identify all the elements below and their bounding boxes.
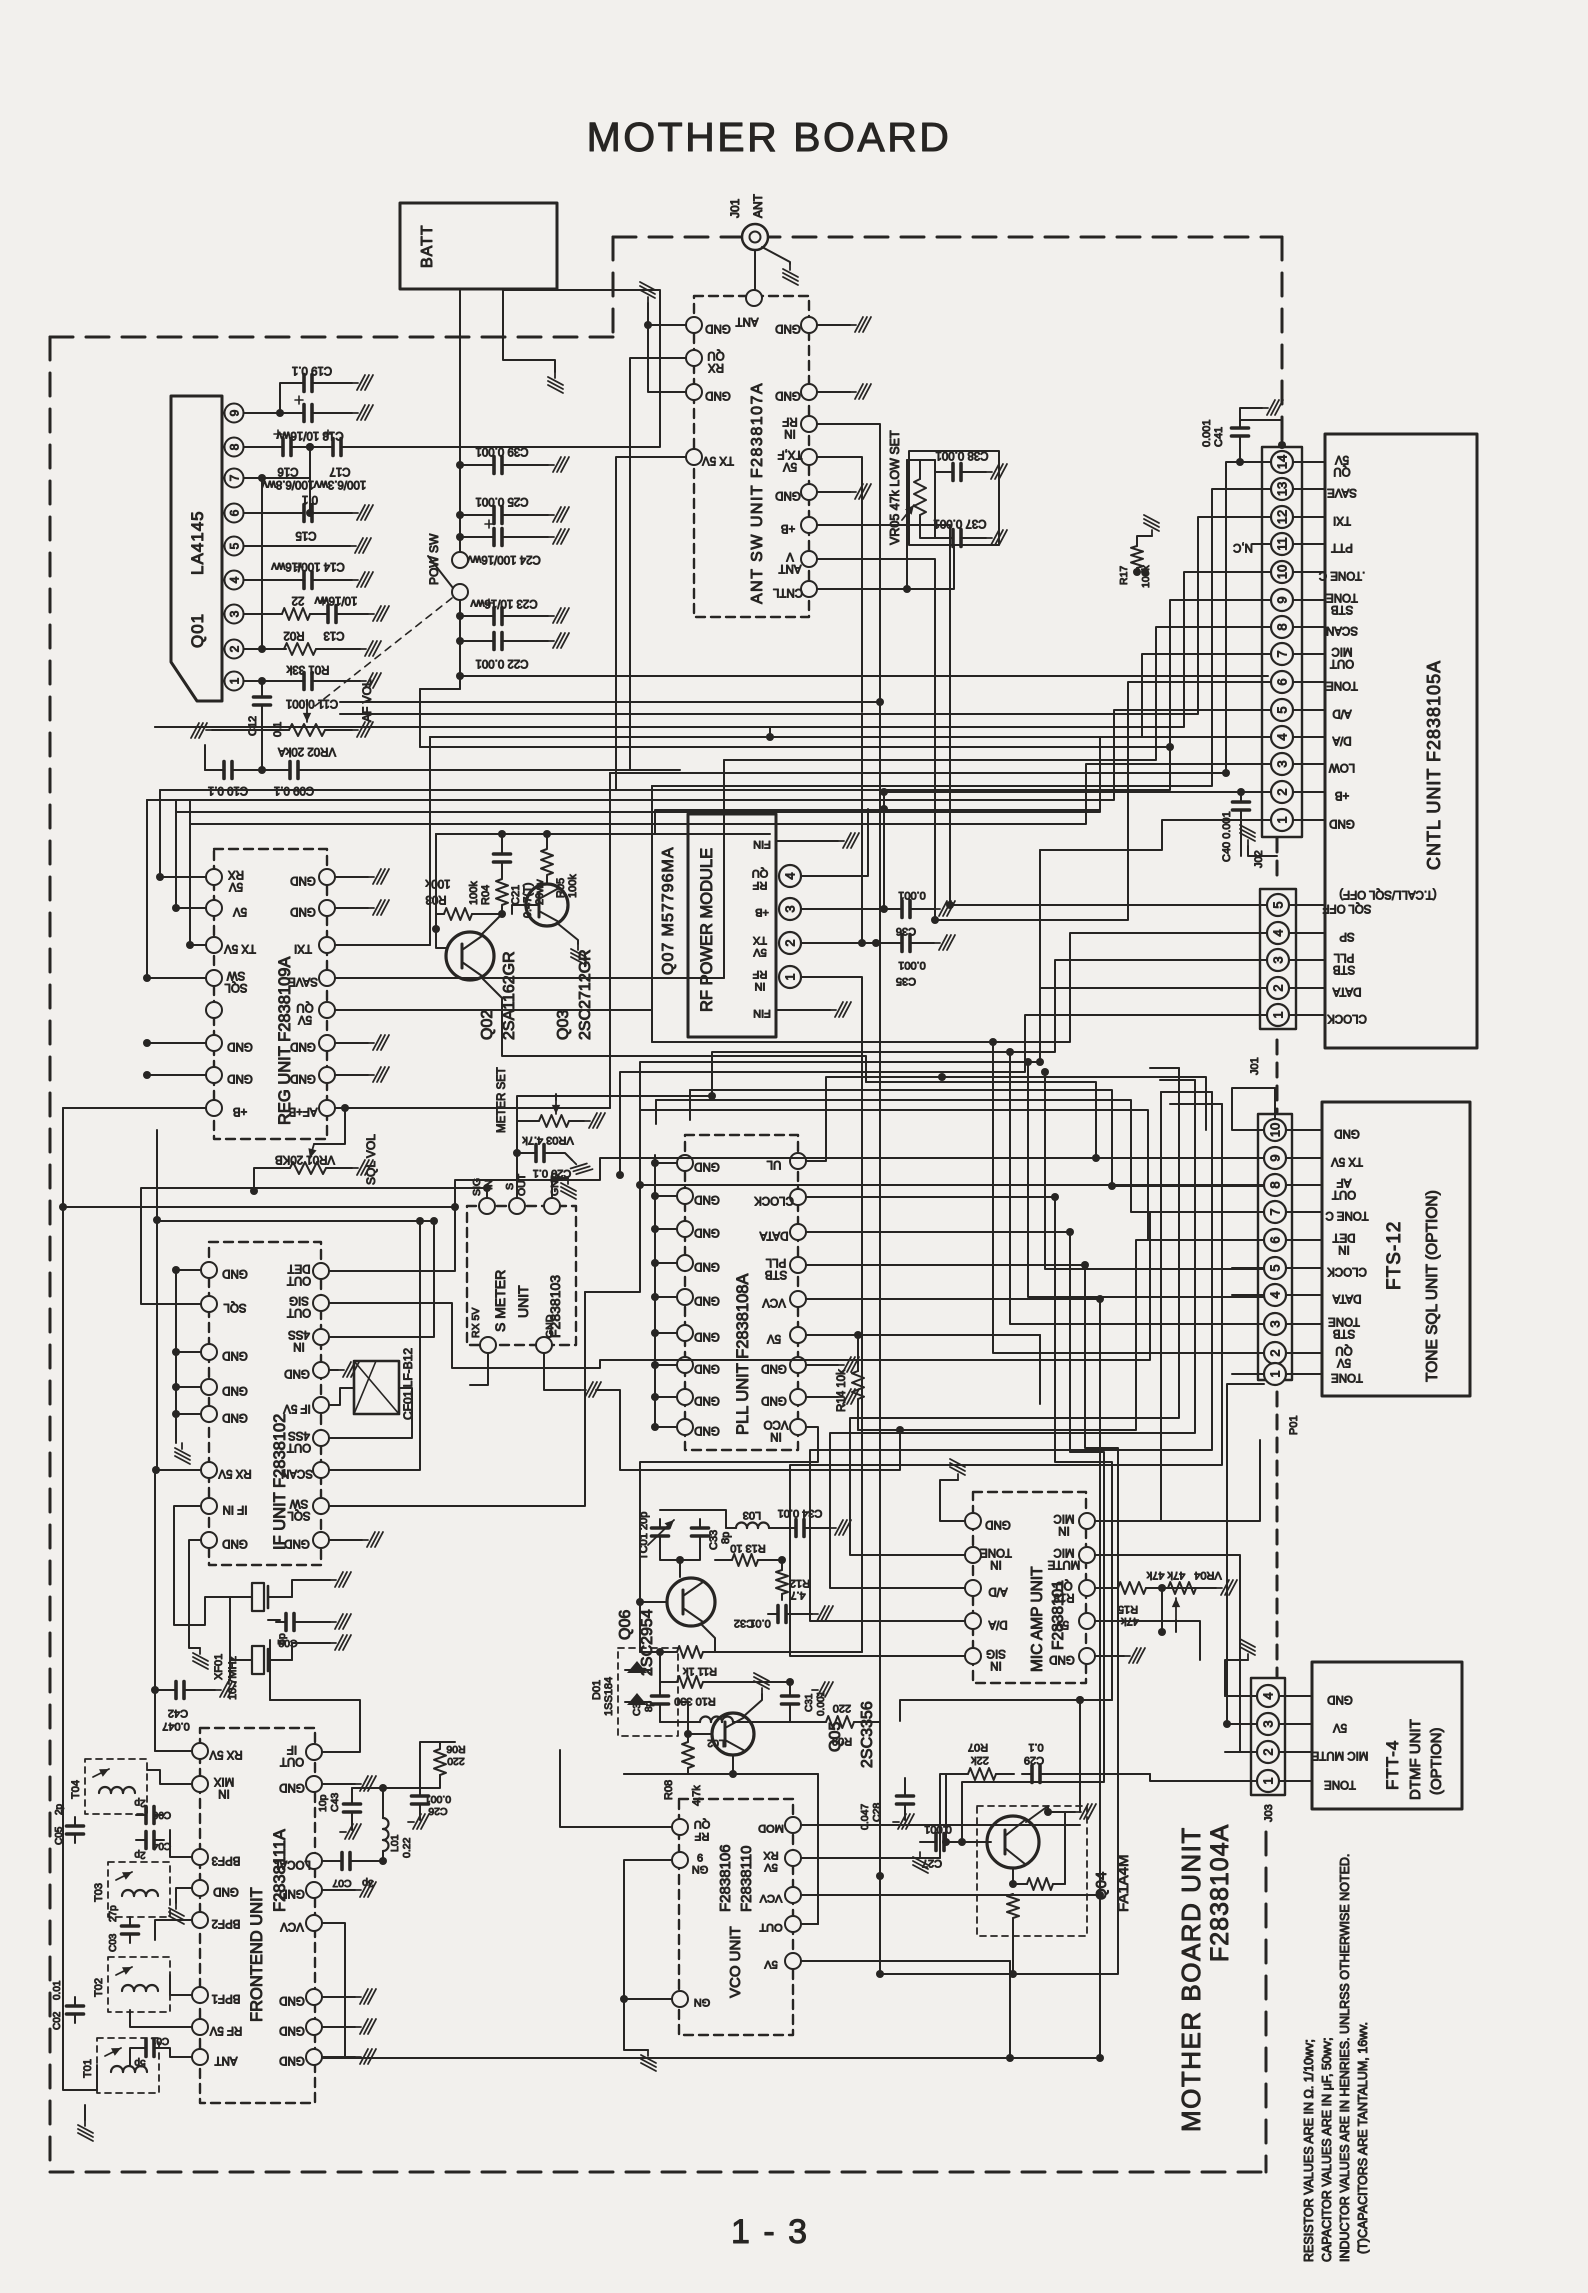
wire PLL STB <box>806 1264 1085 1266</box>
svg-text:GND: GND <box>985 1518 1011 1530</box>
svg-text:C43: C43 <box>329 1793 341 1812</box>
capacitor C13 10/16wv <box>310 613 320 615</box>
svg-text:4.7k: 4.7k <box>691 1785 703 1806</box>
svg-text:DTMF UNIT: DTMF UNIT <box>1407 1719 1424 1800</box>
pin IF left SQL <box>201 1296 217 1312</box>
pin IF right 4SS IN <box>313 1329 329 1345</box>
svg-text:GND: GND <box>279 1781 305 1793</box>
svg-text:GND: GND <box>694 1330 720 1342</box>
svg-text:5: 5 <box>1271 901 1286 908</box>
wire VCV right <box>322 1923 1100 2058</box>
transistor Q02 2SA1162GR <box>446 932 494 980</box>
wire osc top rail <box>639 1510 641 1560</box>
module REG UNIT F2838109A <box>214 849 327 1139</box>
wire bus h2 <box>420 688 460 690</box>
pin MIC right 5V <box>1079 1613 1095 1629</box>
svg-text:Q05: Q05 <box>827 1722 844 1752</box>
wire ANT-SW V ANT right <box>817 559 935 640</box>
potentiometer VR01 20kB SQL VOL <box>290 1162 326 1174</box>
svg-text:STB: STB <box>1332 963 1355 975</box>
svg-text:GND: GND <box>694 1394 720 1406</box>
svg-text:ANT: ANT <box>779 562 802 574</box>
wire Q01 pin2 <box>244 648 286 650</box>
pin IF left RX 5V <box>201 1462 217 1478</box>
wire mesh drop STB <box>1013 1265 1118 1974</box>
svg-text:C24 100/16wv: C24 100/16wv <box>467 553 541 565</box>
wire stair FTS2 QU5V <box>993 1042 1264 1353</box>
wire mesh VCO 5V drop <box>1009 1961 1011 2058</box>
svg-text:5V: 5V <box>1333 1721 1347 1733</box>
pin J01-1 GND <box>1271 809 1293 831</box>
svg-text:5V: 5V <box>229 880 243 892</box>
wire RX5V rail down <box>154 1470 156 1751</box>
pin REG right GND <box>319 1067 335 1083</box>
connector J01 ANT <box>742 224 768 250</box>
svg-text:LA4145: LA4145 <box>188 510 207 575</box>
connector boundary dash J01-J02 <box>1276 838 1279 878</box>
pin ANT top <box>746 290 762 306</box>
capacitor C37 0.001 <box>935 537 948 539</box>
svg-text:A/D: A/D <box>1332 707 1351 719</box>
wire VCO OUT right <box>801 1923 818 1925</box>
svg-text:0.001: 0.001 <box>1201 419 1213 447</box>
pin Q07 RF OUT 4 <box>779 865 801 887</box>
svg-text:10.7MHz: 10.7MHz <box>227 1656 239 1700</box>
switch POW SW <box>452 552 468 568</box>
wire pass v1217 SIGIN <box>790 1104 1222 1656</box>
svg-text:C02: C02 <box>52 2011 63 2030</box>
pin J01-3 LOW <box>1271 753 1293 775</box>
svg-text:4: 4 <box>783 872 798 879</box>
svg-text:+B: +B <box>780 522 795 534</box>
wire mesh FTS TONE C <box>440 1212 1232 1368</box>
wire REG AF+B out <box>335 773 610 1108</box>
svg-text:C34 0.01: C34 0.01 <box>778 1507 823 1519</box>
wire h 1046 feed <box>1036 1058 1044 1066</box>
pin J01-13 SAVE <box>1271 478 1293 500</box>
pin IF left GND <box>201 1532 217 1548</box>
filter CF01 LF-B12 <box>354 1361 399 1414</box>
pin REG right GND <box>319 1035 335 1051</box>
pin Q01 1 <box>225 672 244 691</box>
svg-text:POW SW: POW SW <box>427 533 441 585</box>
svg-text:5: 5 <box>1275 706 1290 713</box>
svg-text:220: 220 <box>447 1755 465 1767</box>
pin PLL left GND <box>677 1155 693 1171</box>
svg-text:INDUCTOR VALUES ARE IN HENRIES: INDUCTOR VALUES ARE IN HENRIES. UNLRSS O… <box>1338 1854 1352 2262</box>
svg-text:RX: RX <box>228 868 244 880</box>
pin J01-2 +B <box>1271 781 1293 803</box>
pin REG left <box>206 1002 222 1018</box>
wire emitter join <box>659 1652 661 1682</box>
pin ANT-SW right V ANT <box>801 551 817 567</box>
pin ANT-SW left TX 5V <box>686 449 702 465</box>
trimmer VR05 47k LOW SET <box>907 460 935 589</box>
wire stair FTS3 TONESTB <box>1010 1052 1264 1324</box>
svg-text:L01: L01 <box>389 1834 401 1852</box>
svg-text:C08: C08 <box>278 1637 297 1649</box>
svg-text:T03: T03 <box>93 1883 105 1902</box>
svg-text:R18: R18 <box>1053 1591 1074 1603</box>
svg-text:GND: GND <box>213 1885 239 1897</box>
wire mesh FTS AF OUT <box>585 1185 1232 1292</box>
pin REG left 5V <box>206 900 222 916</box>
svg-text:R07: R07 <box>968 1741 988 1753</box>
svg-text:(OPTION): (OPTION) <box>1428 1728 1445 1796</box>
svg-text:D01: D01 <box>591 1680 603 1700</box>
module ANT SW UNIT F2838107A <box>694 296 809 617</box>
svg-text:5V: 5V <box>783 460 797 472</box>
pin Q07 TX 5V 2 <box>779 932 801 954</box>
mechanical dashed link POW SW to VR02 <box>315 598 452 706</box>
wire PLL 5V <box>806 1334 1040 1336</box>
svg-text:R02: R02 <box>283 629 304 641</box>
svg-text:1SS184: 1SS184 <box>603 1677 615 1716</box>
svg-text:TONE C: TONE C <box>1325 1209 1368 1221</box>
pin IF right DET OUT <box>313 1263 329 1279</box>
pin REG left TX 5V <box>206 937 222 953</box>
svg-text:QU: QU <box>296 1001 313 1013</box>
svg-text:3: 3 <box>1261 1720 1276 1727</box>
pin MIC right MIC MUTE <box>1079 1547 1095 1563</box>
wire bus J02 CLOCK <box>620 1015 1236 1175</box>
IC Q01 LA4145 <box>171 396 222 701</box>
capacitor C29 0.1 <box>1022 1766 1050 1783</box>
svg-text:100k: 100k <box>468 881 480 905</box>
capacitor C33 8p <box>692 1519 709 1545</box>
svg-text:TONE: TONE <box>1324 1778 1356 1790</box>
capacitor C03 27p <box>122 1917 139 1943</box>
svg-text:5V: 5V <box>764 1861 778 1873</box>
wire net p6 TONE <box>935 682 1240 920</box>
module FTS-12 TONE SQL UNIT <box>1322 1102 1470 1396</box>
wire PLL VCO IN loop <box>640 1427 818 1510</box>
svg-text:QU: QU <box>1055 1579 1072 1591</box>
resistor R15 47k <box>1095 1587 1118 1589</box>
wire Q01 pin9 <box>244 412 296 414</box>
wire mesh v2 <box>934 640 936 920</box>
wire SMETER GND bottom drop <box>544 1353 580 1390</box>
svg-text:GND: GND <box>284 1537 310 1549</box>
capacitor C01 5p <box>136 2040 164 2057</box>
pin PLL right VCV <box>790 1291 806 1307</box>
svg-text:5V: 5V <box>1055 1618 1069 1630</box>
svg-text:47k 47k: 47k 47k <box>1146 1569 1185 1581</box>
capacitor C23 10/16wv <box>456 612 464 620</box>
svg-text:4: 4 <box>1271 929 1286 936</box>
resistor R01 33k <box>284 643 316 655</box>
svg-text:VCV: VCV <box>280 1920 304 1932</box>
svg-text:GND: GND <box>227 1040 253 1052</box>
svg-text:4SS: 4SS <box>288 1328 310 1340</box>
svg-text:RX 5V: RX 5V <box>209 1748 243 1760</box>
svg-text:6: 6 <box>1275 678 1290 685</box>
pin IF right IF 5V <box>313 1397 329 1413</box>
capacitor C08 5p <box>268 1619 280 1621</box>
svg-text:220: 220 <box>833 1702 851 1714</box>
wire REG left RX5V <box>160 800 206 877</box>
svg-text:TONE: TONE <box>980 1546 1012 1558</box>
svg-text:6: 6 <box>1268 1236 1283 1243</box>
pin J01-5 A/D <box>1271 699 1293 721</box>
wire bus TX5V drop <box>615 693 617 790</box>
wire REG left SQL SW <box>147 800 206 978</box>
svg-text:PLL UNIT F2838108A: PLL UNIT F2838108A <box>734 1274 752 1435</box>
pin J01-14 5V QU <box>1271 451 1293 473</box>
wire pin6 riser <box>309 478 311 513</box>
svg-text:GND: GND <box>222 1411 248 1423</box>
svg-text:5: 5 <box>228 542 242 549</box>
svg-text:FIN: FIN <box>753 838 771 850</box>
svg-text:GND: GND <box>705 389 731 401</box>
svg-text:J02: J02 <box>1253 850 1265 868</box>
svg-text:F2838106: F2838106 <box>717 1844 734 1912</box>
pin FRONTEND right GND <box>306 1776 322 1792</box>
capacitor C15 0.1 <box>294 505 322 522</box>
svg-text:+B: +B <box>1334 789 1349 801</box>
svg-text:5V: 5V <box>753 946 767 958</box>
pin Q01 3 <box>225 605 244 624</box>
resistor R04 100k vertical <box>501 870 503 878</box>
pin IF right GND <box>313 1362 329 1378</box>
svg-text:9: 9 <box>697 1851 703 1863</box>
svg-text:GND: GND <box>284 1367 310 1379</box>
outer dashed border top-right <box>613 236 1282 239</box>
svg-text:3: 3 <box>783 905 798 912</box>
battery BATT <box>400 203 557 289</box>
resistor R14 10k <box>852 1371 864 1399</box>
wire REG SAVE out <box>335 760 724 978</box>
svg-text:4.7: 4.7 <box>790 1589 805 1601</box>
outer dashed border bottom-right <box>1265 1832 1268 2172</box>
pin FRONTEND left ANT <box>192 2049 208 2065</box>
wire pin10 top <box>1232 1088 1275 1130</box>
svg-text:1: 1 <box>1268 1370 1283 1377</box>
pin IF right 4SS OUT <box>313 1430 329 1446</box>
resistor R06 220 <box>434 1749 446 1775</box>
svg-text:DATA: DATA <box>1332 985 1361 997</box>
pin PLL right VCO IN <box>790 1419 806 1435</box>
pin Q01 9 <box>225 404 244 423</box>
pin FRONTEND right GND <box>306 2019 322 2035</box>
ground XF01 left <box>189 1620 200 1648</box>
wire MIX IN <box>147 1770 192 1784</box>
wire R03 to base <box>472 913 502 915</box>
wire bus 834 rail <box>436 810 1100 834</box>
wire Q03 base link <box>512 905 539 914</box>
svg-text:A/D: A/D <box>988 1585 1007 1597</box>
svg-text:GND: GND <box>775 389 801 401</box>
svg-text:FRONTEND UNIT: FRONTEND UNIT <box>248 1887 266 2022</box>
svg-text:+B: +B <box>232 1105 247 1117</box>
pin PLL right 5V <box>790 1327 806 1343</box>
svg-text:L03: L03 <box>743 1509 761 1521</box>
svg-text:5V: 5V <box>767 1332 781 1344</box>
transformer T02 <box>108 1957 170 2012</box>
pin PLL right GND <box>790 1389 806 1405</box>
svg-text:100k: 100k <box>567 874 579 898</box>
wire left ANT feed <box>63 1108 97 2090</box>
svg-text:2p: 2p <box>134 1849 146 1860</box>
wire VR01 left <box>254 1168 290 1191</box>
pin MIC left A/D <box>965 1580 981 1596</box>
pin P01-9 TX 5V <box>1264 1147 1286 1169</box>
svg-text:3: 3 <box>1268 1320 1283 1327</box>
svg-text:STB: STB <box>764 1268 787 1280</box>
pin J01-6 TONE <box>1271 671 1293 693</box>
svg-text:SP: SP <box>1339 930 1355 942</box>
resistor R02 22 <box>282 608 310 620</box>
svg-text:BPF3: BPF3 <box>212 1854 241 1866</box>
outer dashed border left <box>49 337 52 2172</box>
wire mesh v1 SQLOFF <box>949 622 951 905</box>
wire BATT right lead <box>502 289 504 290</box>
svg-text:2: 2 <box>228 645 242 652</box>
wire PLL CLOCK <box>806 1196 1055 1198</box>
svg-text:C42: C42 <box>168 1707 188 1719</box>
svg-text:P01: P01 <box>1288 1415 1300 1435</box>
wire FTS1 TONE down <box>1227 1384 1264 1724</box>
pin REG right GND <box>319 900 335 916</box>
pin PLL left GND <box>677 1357 693 1373</box>
pin PLL right PLL STB <box>790 1257 806 1273</box>
svg-text:F2838110: F2838110 <box>738 1846 755 1912</box>
wire h1207 <box>63 1206 455 1208</box>
pin Q07 FIN top <box>776 840 790 842</box>
wire bus h5 <box>155 726 770 728</box>
svg-text:T01: T01 <box>82 2059 94 2078</box>
svg-text:IF: IF <box>287 1743 297 1755</box>
svg-text:RX 5V: RX 5V <box>470 1308 482 1338</box>
wire VCO QURF left <box>560 1750 672 1827</box>
wire Q01 pin1 <box>244 680 296 682</box>
capacitor C32 0.01 <box>768 1606 796 1623</box>
svg-text:DET: DET <box>288 1262 311 1274</box>
svg-text:C23 10/16wv: C23 10/16wv <box>470 597 537 609</box>
pin ANT-SW left GND <box>686 384 702 400</box>
resistor R13 10 <box>732 1554 758 1566</box>
wire mesh RX5V lower <box>940 1774 946 1858</box>
svg-text:PLL: PLL <box>765 1256 786 1268</box>
svg-text:TONE SQL UNIT (OPTION): TONE SQL UNIT (OPTION) <box>1424 1190 1441 1382</box>
pin VCO right MOD <box>785 1817 801 1833</box>
svg-text:GND: GND <box>694 1193 720 1205</box>
wire Q05 base <box>688 1733 712 1735</box>
svg-text:VR02 20kA: VR02 20kA <box>278 745 337 757</box>
trimmer VR03 4.7k METER SET <box>539 1115 569 1127</box>
svg-text:METER SET: METER SET <box>496 1067 508 1133</box>
svg-text:IF IN: IF IN <box>223 1503 248 1515</box>
svg-text:10: 10 <box>1275 565 1290 579</box>
svg-text:GND: GND <box>694 1424 720 1436</box>
svg-text:R04: R04 <box>480 885 492 905</box>
svg-text:OUT: OUT <box>1332 1188 1356 1200</box>
wire mesh lower long 1 <box>900 1700 1112 1721</box>
wire BATT +B to Q01 pin8 rail <box>345 290 660 447</box>
wire below POW SW <box>459 600 461 676</box>
wire Q02 collector <box>482 914 502 934</box>
svg-text:GND: GND <box>1329 817 1355 829</box>
module CNTL UNIT F2838105A <box>1325 434 1477 1048</box>
wire J01 to ground <box>762 247 790 264</box>
capacitor C25 0.001 <box>456 511 464 519</box>
svg-text:CLOCK: CLOCK <box>1327 1012 1367 1024</box>
inductor L01 0.22 <box>383 1818 389 1851</box>
svg-text:Q06: Q06 <box>617 1610 634 1640</box>
svg-text:F2838104A: F2838104A <box>1206 1824 1234 1962</box>
wire Q02 emitter down <box>482 978 502 1022</box>
transistor Q03 2SC2712GR <box>526 884 568 926</box>
svg-text:5p: 5p <box>134 2057 146 2068</box>
wire J01 to ANT pin <box>754 250 756 290</box>
svg-text:OUT: OUT <box>1330 657 1354 669</box>
svg-text:IN: IN <box>990 1558 1002 1570</box>
resistor R11 1k <box>677 1646 703 1658</box>
svg-text:C35: C35 <box>896 975 916 987</box>
svg-text:0.1: 0.1 <box>302 493 318 505</box>
svg-text:10: 10 <box>1268 1123 1283 1137</box>
wire net p12 TXI <box>340 517 1240 714</box>
ground BATT <box>548 372 563 393</box>
wire Q01 pin6 <box>244 512 296 514</box>
svg-text:2: 2 <box>1268 1349 1283 1356</box>
svg-text:5V: 5V <box>1335 453 1349 465</box>
wire mesh J03 TONE <box>1150 1774 1225 1781</box>
svg-text:0.001: 0.001 <box>898 889 926 901</box>
wire pass v1161 MIC IN <box>1095 1092 1182 1521</box>
svg-text:SQL: SQL <box>223 1301 247 1313</box>
svg-text:1: 1 <box>228 677 242 684</box>
svg-text:C17: C17 <box>329 465 350 477</box>
svg-text:VCO UNIT: VCO UNIT <box>727 1926 744 1998</box>
pin PLL left GND <box>677 1389 693 1405</box>
wire BPF1 <box>170 1975 192 1995</box>
svg-text:+B: +B <box>755 906 769 918</box>
svg-text:GND: GND <box>279 2024 305 2036</box>
wire mesh FTS TX5V <box>455 1158 1232 1207</box>
pin SMETER S OUT <box>509 1198 525 1214</box>
wire pass v1179 TONE IN <box>850 1068 1179 1555</box>
capacitor C24 100/16wv <box>456 533 464 541</box>
svg-text:0.1: 0.1 <box>1028 1741 1043 1753</box>
wire net p8 SCAN <box>724 627 1240 978</box>
wire mesh VCO MOD <box>1079 1700 1081 1812</box>
svg-text:0.22: 0.22 <box>401 1837 413 1858</box>
pin P01-3 TONE STB <box>1264 1313 1286 1335</box>
svg-text:GN: GN <box>692 1863 709 1875</box>
wire ANT-SW RX QU <box>630 358 686 680</box>
wire bus h5b <box>769 727 771 737</box>
svg-text:T04: T04 <box>70 1780 82 1799</box>
capacitor C22 0.001 <box>456 637 464 645</box>
wire bus left h 747 <box>420 746 1170 748</box>
svg-text:RF: RF <box>782 415 797 427</box>
wire VCO MOD right <box>801 1824 1080 1826</box>
svg-text:CNTL: CNTL <box>772 586 803 598</box>
svg-text:S METER: S METER <box>492 1270 508 1332</box>
wire T01 ANT chain <box>130 2048 142 2065</box>
svg-text:2: 2 <box>1275 788 1290 795</box>
svg-text:MIC: MIC <box>1053 1512 1074 1524</box>
pin REG right GND <box>319 869 335 885</box>
svg-text:2: 2 <box>1271 984 1286 991</box>
svg-text:TONE: TONE <box>1331 1371 1363 1383</box>
pin REG left GND <box>206 1035 222 1051</box>
wire crystals left drop <box>229 1597 231 1660</box>
svg-text:Q03: Q03 <box>555 1010 572 1040</box>
svg-text:0.047: 0.047 <box>162 1720 190 1732</box>
crystal XF01 10.7MHz upper <box>230 1596 252 1598</box>
